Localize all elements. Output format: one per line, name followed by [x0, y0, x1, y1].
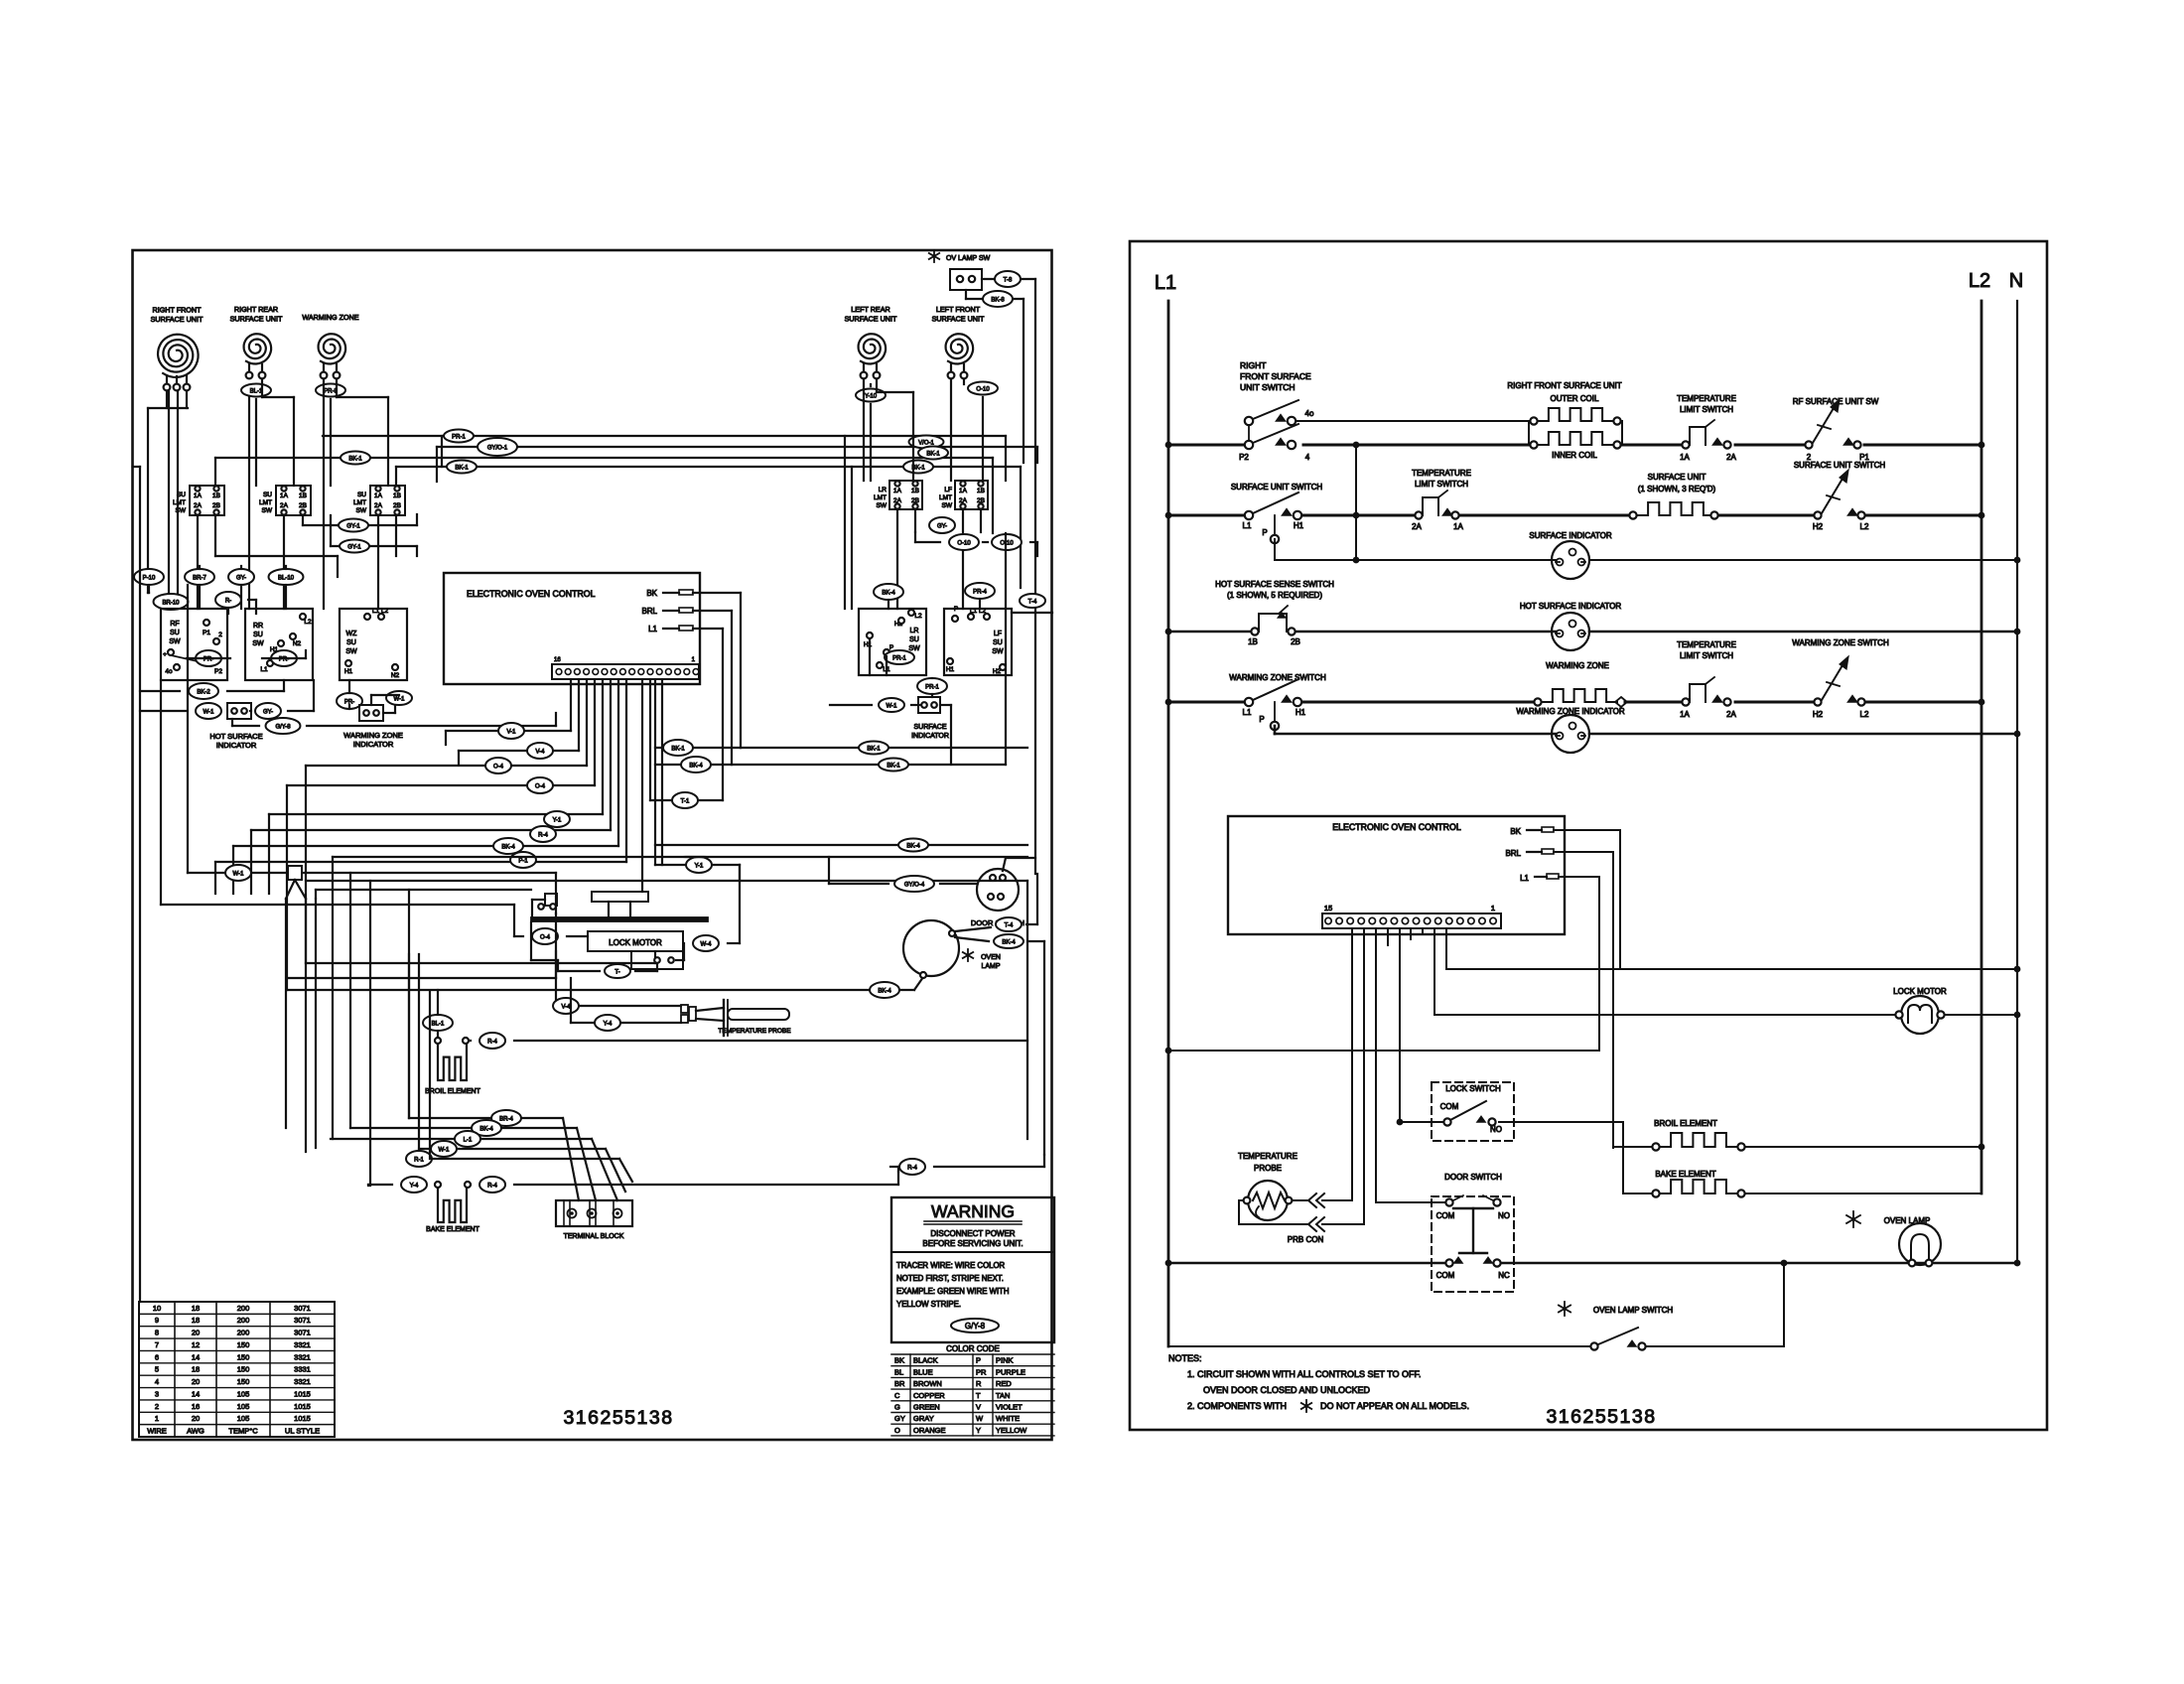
svg-text:L2: L2: [304, 619, 312, 626]
svg-text:2A: 2A: [374, 502, 383, 509]
svg-text:PR-1: PR-1: [892, 656, 906, 662]
lock motor sub box: [631, 951, 683, 969]
svg-text:ELECTRONIC OVEN CONTROL: ELECTRONIC OVEN CONTROL: [467, 589, 596, 599]
svg-text:WZ: WZ: [346, 631, 358, 637]
svg-text:O-10: O-10: [1000, 541, 1014, 547]
svg-text:SURFACE UNIT SWITCH: SURFACE UNIT SWITCH: [1794, 461, 1886, 470]
svg-text:O-4: O-4: [493, 765, 504, 771]
svg-text:GY-1: GY-1: [346, 524, 360, 530]
row2 coil: [1629, 511, 1636, 518]
lower fan slants: [563, 1118, 579, 1200]
svg-text:W-1: W-1: [204, 710, 215, 716]
connector BL-1 under RR spiral: [241, 384, 271, 397]
svg-text:SURFACE UNIT: SURFACE UNIT: [1648, 473, 1706, 482]
connector P-10: [134, 569, 164, 585]
svg-text:OV LAMP SW: OV LAMP SW: [946, 255, 991, 262]
svg-text:1B: 1B: [1248, 637, 1258, 646]
svg-text:COLOR CODE: COLOR CODE: [946, 1344, 1000, 1353]
RF surface unit sw: [1805, 441, 1812, 448]
WZ limit switch box: [370, 486, 405, 515]
svg-text:LAMP: LAMP: [981, 963, 1000, 970]
svg-text:COM: COM: [1436, 1271, 1455, 1280]
wire right ovals: [914, 532, 916, 542]
svg-text:N2: N2: [391, 672, 400, 679]
svg-text:2B: 2B: [299, 502, 307, 509]
svg-text:O-4: O-4: [535, 784, 546, 790]
svg-text:LF: LF: [944, 487, 952, 493]
WZ spiral terminals: [321, 372, 328, 379]
svg-text:2A: 2A: [1412, 522, 1422, 531]
svg-text:V-1: V-1: [506, 730, 516, 736]
svg-text:UL STYLE: UL STYLE: [285, 1427, 320, 1436]
temperature probe taper: [696, 1008, 724, 1011]
svg-text:ORANGE: ORANGE: [913, 1426, 946, 1435]
svg-text:BR-4: BR-4: [499, 1117, 513, 1123]
wire probe a: [556, 1005, 681, 1007]
svg-text:200: 200: [237, 1316, 250, 1325]
OV LAMP SW box: [950, 269, 982, 290]
wire below WZ limit: [377, 515, 379, 609]
svg-text:BK-1: BK-1: [671, 747, 685, 753]
svg-text:GY: GY: [894, 1414, 905, 1423]
svg-text:1A: 1A: [893, 488, 902, 494]
wire BRL right: [693, 610, 732, 612]
svg-text:SU: SU: [177, 491, 186, 498]
svg-text:L2: L2: [914, 613, 922, 620]
svg-text:GREEN: GREEN: [913, 1403, 940, 1412]
svg-text:T-8: T-8: [1004, 278, 1013, 284]
svg-text:(1 SHOWN, 5 REQUIRED): (1 SHOWN, 5 REQUIRED): [1227, 591, 1322, 600]
outer coil: [1530, 417, 1537, 424]
wire lock motor to N: [1945, 1014, 2017, 1016]
svg-text:T: T: [976, 1391, 981, 1400]
svg-text:H2: H2: [1813, 522, 1824, 531]
svg-text:TEMPERATURE PROBE: TEMPERATURE PROBE: [718, 1028, 791, 1035]
svg-text:10: 10: [153, 1304, 161, 1313]
svg-text:YELLOW STRIPE.: YELLOW STRIPE.: [896, 1300, 961, 1309]
svg-text:R-: R-: [225, 599, 231, 605]
svg-text:1A: 1A: [194, 492, 203, 499]
connector W-1 surf ind: [879, 698, 904, 712]
svg-text:SW: SW: [252, 640, 264, 647]
temperature probe right: [1248, 1181, 1288, 1220]
L1 bus: [1167, 301, 1170, 1346]
svg-text:P-1: P-1: [518, 859, 528, 865]
svg-text:3071: 3071: [294, 1304, 311, 1313]
lock motor right: [1901, 996, 1939, 1034]
svg-text:LOCK MOTOR: LOCK MOTOR: [609, 938, 662, 947]
svg-text:WIRE: WIRE: [147, 1427, 167, 1436]
svg-text:3331: 3331: [294, 1365, 311, 1374]
svg-text:INDICATOR: INDICATOR: [353, 740, 394, 749]
surface unit RR spiral: [244, 334, 272, 363]
connector BK-1 y770b: [879, 759, 908, 772]
svg-text:LEFT FRONT: LEFT FRONT: [936, 305, 981, 314]
svg-text:LMT: LMT: [874, 494, 887, 501]
svg-text:BRL: BRL: [641, 607, 657, 616]
svg-text:1A: 1A: [1680, 710, 1690, 719]
svg-text:RR: RR: [253, 623, 263, 630]
svg-text:FRONT SURFACE: FRONT SURFACE: [1240, 371, 1311, 381]
svg-text:TRACER WIRE: WIRE COLOR: TRACER WIRE: WIRE COLOR: [896, 1261, 1006, 1270]
svg-text:1B: 1B: [393, 492, 401, 499]
connector BK-4 fan: [493, 838, 523, 854]
svg-text:18: 18: [192, 1365, 200, 1374]
svg-text:2A: 2A: [1726, 453, 1736, 462]
svg-text:R-4: R-4: [487, 1040, 497, 1046]
svg-text:7: 7: [155, 1340, 159, 1349]
svg-text:H1: H1: [344, 668, 353, 675]
svg-text:2A: 2A: [194, 502, 203, 509]
svg-text:WARMING ZONE: WARMING ZONE: [1546, 661, 1609, 670]
wire BR-7 col: [199, 566, 201, 569]
svg-text:PROBE: PROBE: [1254, 1164, 1282, 1173]
OV LAMP SW label: [933, 250, 935, 262]
svg-text:BLUE: BLUE: [913, 1367, 933, 1376]
connector R-4 far right: [899, 1159, 925, 1175]
wire LF col b: [963, 379, 965, 384]
connector V-4 probe: [553, 998, 579, 1014]
connector BK-4 lamp2: [994, 934, 1024, 948]
svg-text:W-4: W-4: [701, 942, 713, 948]
connector O-4 lock: [532, 928, 558, 944]
wire LR feed vertical b: [851, 467, 853, 609]
svg-text:SW: SW: [262, 507, 273, 514]
hot surface indicator box: [227, 703, 251, 719]
wire LR box internals: [869, 639, 871, 675]
svg-text:O-4: O-4: [540, 935, 551, 941]
svg-text:1A: 1A: [959, 488, 968, 494]
row4 temp limit switch: [1682, 698, 1689, 705]
wire below RR limit: [283, 515, 285, 609]
svg-text:C: C: [894, 1391, 900, 1400]
row1 upper branch: [1297, 420, 1529, 422]
inner coil: [1530, 441, 1537, 448]
wire y970: [306, 962, 655, 964]
wire BK-8: [965, 290, 967, 299]
row2b indicator wire: [1274, 539, 1276, 560]
wire bus y450: [437, 446, 1037, 448]
svg-text:BAKE ELEMENT: BAKE ELEMENT: [1655, 1170, 1715, 1179]
row4 WZ switch: [1814, 698, 1821, 705]
svg-text:2: 2: [218, 631, 222, 638]
row1 main wire: [1168, 444, 1249, 447]
connector O-10 right b: [992, 534, 1022, 550]
connector Y-4 probe: [595, 1015, 620, 1031]
wire LF col a: [950, 379, 952, 481]
svg-text:BK-4: BK-4: [906, 844, 920, 850]
svg-text:2B: 2B: [212, 502, 220, 509]
connector BK-4 lamp: [870, 982, 899, 998]
connector PR- mid a: [196, 650, 221, 666]
svg-text:3071: 3071: [294, 1316, 311, 1325]
oven lamp switch row: [1168, 1345, 1590, 1347]
wire y911: [161, 904, 514, 906]
wire y887: [306, 880, 1027, 882]
RR SU SW box: [245, 609, 313, 680]
connector PR-1 above surf ind: [917, 678, 947, 694]
svg-text:105: 105: [237, 1414, 250, 1423]
connector W-1 row4: [431, 1141, 457, 1157]
connector BK-4 above LR: [874, 584, 903, 600]
svg-text:LR: LR: [879, 487, 887, 493]
wire strip drop 1457: [1445, 928, 1447, 969]
svg-text:INNER COIL: INNER COIL: [1552, 451, 1597, 460]
connector PR-4 above LF: [965, 583, 995, 599]
svg-text:L1: L1: [1243, 708, 1252, 717]
svg-text:Y-1: Y-1: [553, 818, 562, 824]
svg-text:WARNING: WARNING: [931, 1201, 1015, 1221]
svg-text:1015: 1015: [294, 1389, 311, 1398]
svg-text:BK-1: BK-1: [348, 457, 362, 463]
oven lamp switch label: [1564, 1302, 1566, 1316]
wire above LR box: [887, 600, 889, 609]
wire LR col a: [863, 379, 865, 481]
EOC box right: [1228, 816, 1565, 934]
svg-text:150: 150: [237, 1340, 250, 1349]
wire P-10 col: [148, 585, 150, 593]
wire GY-1 pair: [338, 524, 417, 526]
svg-text:SU: SU: [357, 491, 366, 498]
svg-text:DOOR SWITCH: DOOR SWITCH: [1444, 1173, 1502, 1182]
svg-text:Y-4: Y-4: [604, 1022, 613, 1028]
wire y770 extension: [732, 764, 1006, 766]
connector BL-10: [269, 569, 304, 585]
connector BR-10: [154, 594, 189, 610]
connector O-10 right a: [949, 534, 979, 550]
wire strip drop 1386: [1375, 928, 1377, 1202]
svg-text:N: N: [2009, 270, 2023, 292]
wire BL-10 col: [285, 566, 287, 569]
wire y896: [316, 889, 531, 891]
svg-text:P2: P2: [1239, 453, 1249, 462]
svg-text:PR: PR: [976, 1367, 987, 1376]
wire LR col oval: [870, 384, 872, 386]
svg-text:GY-1: GY-1: [347, 545, 361, 551]
connector BK-4 row2: [472, 1120, 501, 1136]
svg-text:GY/O-1: GY/O-1: [487, 446, 508, 452]
connector V-1 fan: [498, 723, 524, 739]
wire LR feed vertical: [844, 436, 846, 609]
wire RR col a: [248, 396, 250, 609]
svg-text:T-: T-: [614, 970, 619, 976]
svg-text:R-4: R-4: [907, 1166, 917, 1172]
svg-text:4: 4: [1305, 453, 1310, 462]
svg-text:SW: SW: [877, 502, 887, 509]
connector W-1 wz ind: [386, 691, 412, 705]
wire WZ col c: [336, 379, 338, 397]
wire W-1 surf: [830, 704, 872, 706]
svg-text:RIGHT REAR: RIGHT REAR: [234, 305, 278, 314]
svg-text:L1: L1: [1520, 874, 1529, 883]
svg-text:BR: BR: [894, 1379, 905, 1388]
connector BK-1 r1: [663, 740, 693, 756]
RF SU SW box: [161, 609, 227, 680]
svg-text:316255138: 316255138: [563, 1407, 673, 1429]
wire GY- col: [240, 566, 242, 569]
svg-text:P: P: [954, 606, 958, 613]
svg-text:1. CIRCUIT SHOWN WITH ALL: 1. CIRCUIT SHOWN WITH ALL CONTROLS SET T…: [1187, 1369, 1422, 1379]
svg-text:SW: SW: [992, 648, 1004, 655]
svg-text:SU: SU: [253, 631, 263, 638]
connector Y-1 r4: [686, 857, 712, 873]
svg-text:9: 9: [155, 1316, 159, 1325]
svg-text:GRAY: GRAY: [913, 1414, 934, 1423]
connector V-4 fan: [527, 743, 553, 759]
svg-text:2A: 2A: [1726, 710, 1736, 719]
L2 bus: [1980, 301, 1983, 1193]
wire below LR limit: [896, 509, 898, 609]
svg-text:BK: BK: [894, 1356, 904, 1365]
svg-text:14: 14: [192, 1389, 200, 1398]
svg-text:L1 L2: L1 L2: [970, 608, 987, 615]
wire LR col b: [876, 379, 878, 392]
wire y871: [655, 864, 740, 866]
row3 sense switch: [1251, 628, 1258, 634]
svg-text:20: 20: [192, 1329, 200, 1337]
svg-text:G/Y-8: G/Y-8: [965, 1322, 986, 1331]
svg-text:H1: H1: [1294, 521, 1304, 530]
wire below LF limit: [962, 509, 964, 609]
wire probe b: [571, 1022, 681, 1024]
connector BK-8: [983, 291, 1013, 307]
RR spiral terminals: [246, 372, 253, 379]
connector GY-1 b: [340, 540, 369, 553]
svg-text:NOTES:: NOTES:: [1168, 1353, 1202, 1363]
svg-text:LIMIT SWITCH: LIMIT SWITCH: [1680, 651, 1733, 660]
svg-text:BEFORE SERVICING UNIT.: BEFORE SERVICING UNIT.: [922, 1239, 1023, 1248]
svg-text:TEMPERATURE: TEMPERATURE: [1412, 469, 1471, 478]
junction node square: [288, 866, 302, 880]
svg-text:R-4: R-4: [538, 833, 548, 839]
N bus: [2016, 301, 2018, 1263]
link vertical x1366: [1355, 445, 1357, 560]
svg-text:TERMINAL BLOCK: TERMINAL BLOCK: [564, 1233, 624, 1240]
svg-text:200: 200: [237, 1329, 250, 1337]
wire O-4 lock: [514, 935, 523, 937]
svg-text:EXAMPLE: GREEN WIRE WITH: EXAMPLE: GREEN WIRE WITH: [896, 1287, 1010, 1296]
svg-text:3321: 3321: [294, 1377, 311, 1386]
svg-text:3071: 3071: [294, 1329, 311, 1337]
door switch box: [1432, 1196, 1514, 1292]
connector GY-1 a: [339, 519, 368, 532]
wire bus y461: [215, 457, 993, 459]
wire RF col c: [177, 391, 179, 609]
connector PR-1 in LR box: [885, 650, 914, 664]
connector BK-2: [189, 683, 218, 699]
svg-text:BK-4: BK-4: [882, 591, 895, 597]
svg-text:LEFT REAR: LEFT REAR: [851, 305, 889, 314]
svg-text:V-4: V-4: [561, 1005, 571, 1011]
svg-text:ELECTRONIC OVEN CONTROL: ELECTRONIC OVEN CONTROL: [1332, 822, 1461, 832]
connector W-4 lock: [693, 935, 719, 951]
connector R-1 row5: [406, 1151, 432, 1167]
bake element right: [1623, 1193, 1652, 1194]
LF limit switch box: [955, 481, 988, 509]
hot surface indicator: [1552, 613, 1589, 650]
wire RR col c: [261, 379, 263, 397]
wire wz ind: [348, 705, 350, 709]
svg-text:BK-8: BK-8: [991, 298, 1005, 304]
wire EOC drop extra a: [641, 680, 643, 892]
connector BK-1 y753b: [859, 742, 888, 755]
svg-text:BROIL ELEMENT: BROIL ELEMENT: [425, 1088, 480, 1095]
svg-text:SU: SU: [170, 630, 180, 636]
svg-text:R: R: [976, 1379, 982, 1388]
svg-text:BK: BK: [646, 589, 657, 598]
svg-text:2. COMPONENTS WITH: 2. COMPONENTS WITH: [1187, 1401, 1287, 1411]
svg-text:LR: LR: [910, 628, 919, 634]
wire y877: [188, 872, 556, 874]
svg-text:316255138: 316255138: [1546, 1406, 1656, 1428]
connector T-4 lamp: [996, 917, 1022, 931]
svg-text:TEMPERATURE: TEMPERATURE: [1238, 1152, 1297, 1161]
svg-text:4: 4: [155, 1377, 159, 1386]
temperature probe rod: [728, 1009, 789, 1020]
door switch bottom row: [1445, 1259, 1452, 1266]
wire y997: [287, 989, 869, 991]
svg-text:1015: 1015: [294, 1402, 311, 1411]
svg-text:PR-4: PR-4: [973, 590, 987, 596]
svg-text:RF: RF: [170, 621, 179, 628]
svg-text:SW: SW: [169, 638, 181, 645]
wire EOC L1 route: [1559, 876, 1599, 878]
surface unit LR spiral: [859, 334, 887, 363]
svg-text:O: O: [894, 1426, 900, 1435]
connector Y-4 bake: [401, 1177, 427, 1193]
svg-text:2B: 2B: [393, 502, 401, 509]
svg-text:O-10: O-10: [957, 541, 971, 547]
bake element: [438, 1189, 467, 1222]
node fan lines: [286, 880, 295, 899]
svg-text:H1: H1: [946, 666, 955, 673]
connector T-8: [995, 271, 1021, 287]
svg-text:GY/O-4: GY/O-4: [904, 883, 925, 889]
svg-text:L1: L1: [1155, 272, 1176, 294]
svg-text:NOTED FIRST, STRIPE NEXT.: NOTED FIRST, STRIPE NEXT.: [896, 1274, 1004, 1283]
svg-text:P2: P2: [214, 668, 222, 675]
connector R-: [215, 592, 241, 608]
svg-text:105: 105: [237, 1402, 250, 1411]
fan left verticals: [445, 731, 447, 745]
lock assembly bar: [531, 917, 708, 921]
svg-text:L2: L2: [1860, 522, 1869, 531]
svg-text:H2: H2: [1813, 710, 1824, 719]
wire T-4 lamp: [955, 927, 991, 931]
svg-text:2A: 2A: [280, 502, 289, 509]
lock switch box: [1432, 1082, 1514, 1141]
warning divider: [891, 1251, 1054, 1253]
svg-text:L2: L2: [1860, 710, 1869, 719]
svg-text:1A: 1A: [374, 492, 383, 499]
wire BK-4 lamp2: [955, 937, 989, 941]
svg-text:COM: COM: [1440, 1102, 1459, 1111]
surface indicator: [1552, 541, 1589, 579]
svg-text:SURFACE: SURFACE: [913, 724, 946, 731]
svg-text:HOT SURFACE INDICATOR: HOT SURFACE INDICATOR: [1520, 602, 1621, 611]
svg-text:LMT: LMT: [173, 499, 186, 506]
svg-text:P: P: [1259, 715, 1264, 724]
svg-text:BK-2: BK-2: [197, 690, 210, 696]
wire y985: [287, 977, 556, 979]
connector BK-1 bus4: [447, 461, 477, 474]
svg-text:COPPER: COPPER: [913, 1391, 945, 1400]
wire door sw: [829, 883, 888, 885]
svg-text:1A: 1A: [280, 492, 289, 499]
svg-text:BK-4: BK-4: [1002, 940, 1016, 946]
connector BK-1 bus3a: [341, 452, 370, 465]
connector R-4 broil: [479, 1033, 505, 1049]
